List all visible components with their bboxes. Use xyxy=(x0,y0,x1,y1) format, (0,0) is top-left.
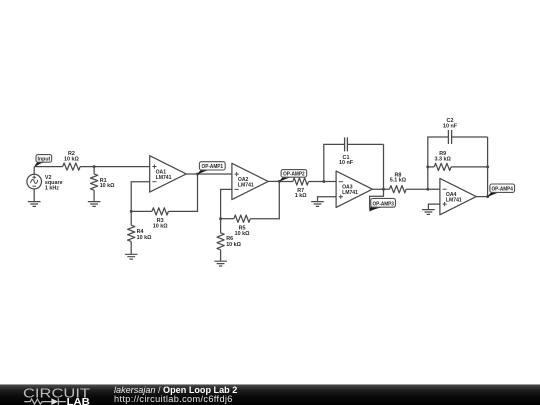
C1 value label xyxy=(339,155,354,166)
wire R3 to feedback node xyxy=(131,210,152,212)
svg-text:Input: Input xyxy=(38,157,51,163)
svg-text:10 kΩ: 10 kΩ xyxy=(235,231,250,237)
net flag Input xyxy=(34,155,52,168)
footer title text xyxy=(114,386,237,405)
resistor R8 xyxy=(390,186,407,193)
node R5/R6 junction xyxy=(219,217,222,220)
node C1 branch junction xyxy=(322,180,325,183)
capacitor C1 xyxy=(345,137,348,151)
wire R8 to OA4 - input xyxy=(406,188,440,190)
svg-text:10 nF: 10 nF xyxy=(339,160,354,166)
wire node to R4 xyxy=(130,211,132,225)
node OA3 output junction xyxy=(382,188,385,191)
svg-text:1 kHz: 1 kHz xyxy=(45,185,59,191)
net flag OP-AMP2 xyxy=(279,170,307,182)
R1 value label xyxy=(100,178,115,189)
OA1 name label xyxy=(156,170,172,182)
resistor R7 xyxy=(293,178,309,185)
R6 value label xyxy=(226,236,241,248)
svg-text:5.1 kΩ: 5.1 kΩ xyxy=(390,178,407,184)
node OA2 output junction xyxy=(278,180,281,183)
CircuitLab logo xyxy=(0,385,100,405)
wire C1 right branch xyxy=(347,144,383,189)
net flag OP-AMP1 xyxy=(197,162,225,175)
wire junction down to R1 xyxy=(93,167,95,174)
wire C2 right branch down to output xyxy=(452,137,488,197)
ground under R4 xyxy=(125,254,138,259)
wire V2 bottom to ground xyxy=(33,189,35,202)
resistor R3 xyxy=(152,208,168,215)
svg-text:10 kΩ: 10 kΩ xyxy=(137,235,152,241)
wire OA2 output xyxy=(268,180,279,182)
wire C1 left branch xyxy=(324,144,345,181)
wire OA1 output xyxy=(186,173,232,175)
svg-text:LM741: LM741 xyxy=(446,198,462,204)
ground at OA4 + input xyxy=(422,210,435,215)
svg-text:OP-AMP3: OP-AMP3 xyxy=(372,202,394,208)
node R2/R1 junction xyxy=(93,165,96,168)
resistor R2 xyxy=(63,163,81,170)
node R9 right junction xyxy=(486,165,489,168)
wire OA4 + input to ground xyxy=(428,204,440,210)
wire corner to R2 xyxy=(34,166,62,168)
svg-text:1 kΩ: 1 kΩ xyxy=(295,193,307,199)
resistor R4 xyxy=(128,225,135,241)
wire OA3 + input to ground xyxy=(318,197,337,202)
op-amp OA2 xyxy=(232,163,268,199)
svg-text:LM741: LM741 xyxy=(342,190,358,196)
svg-text:10 nF: 10 nF xyxy=(443,124,458,130)
R3 value label xyxy=(153,218,168,230)
capacitor C2 xyxy=(448,130,451,144)
wire R6 to ground xyxy=(220,250,222,261)
OA4 name label xyxy=(446,192,462,204)
net flag OP-AMP3 xyxy=(369,198,395,211)
R4 value label xyxy=(137,229,152,241)
node R9 left junction xyxy=(426,165,429,168)
op-amp OA3 xyxy=(336,171,372,207)
resistor R1 xyxy=(91,174,98,190)
R8 value label xyxy=(390,173,407,184)
wire R4 to ground xyxy=(130,242,132,255)
wire OA4 output xyxy=(476,196,487,198)
wire output down to R5 xyxy=(250,181,279,218)
R7 value label xyxy=(295,188,307,199)
op-amp OA4 xyxy=(440,178,476,214)
svg-text:OP-AMP1: OP-AMP1 xyxy=(202,164,224,170)
R9 value label xyxy=(435,151,452,163)
node OA4 output junction xyxy=(486,195,489,198)
wire OA1 - input feedback xyxy=(131,182,150,212)
svg-text:LM741: LM741 xyxy=(156,175,172,181)
footer url text xyxy=(114,395,237,405)
R5 value label xyxy=(235,225,250,237)
voltage source V2 xyxy=(27,174,42,189)
svg-text:10 kΩ: 10 kΩ xyxy=(64,157,79,163)
resistor R9 xyxy=(428,163,488,170)
op-amp OA1 xyxy=(150,156,187,192)
svg-text:OP-AMP4: OP-AMP4 xyxy=(491,186,513,192)
wire R1 to ground xyxy=(93,190,95,201)
wire output down to R3 xyxy=(168,174,197,211)
footer bar xyxy=(0,384,540,405)
node OA1 output junction xyxy=(196,173,199,176)
wire node to R6 xyxy=(220,219,222,233)
wire OA4 left feedback riser xyxy=(428,137,449,189)
resistor R6 xyxy=(217,233,224,250)
svg-text:LAB: LAB xyxy=(67,397,90,405)
svg-text:LM741: LM741 xyxy=(238,183,254,189)
wire input corner to V2 top xyxy=(33,167,35,175)
wire OA2 - input feedback xyxy=(221,189,232,218)
wire R2 to OA1 + input xyxy=(80,166,150,168)
node R3/R4 junction xyxy=(130,210,133,213)
node OA4 feedback junction xyxy=(426,188,429,191)
wire OA2 out to R7 xyxy=(279,181,293,183)
svg-text:3.3 kΩ: 3.3 kΩ xyxy=(435,157,452,163)
wire junction stub to flag xyxy=(370,189,384,209)
svg-text:10 kΩ: 10 kΩ xyxy=(226,242,241,248)
wire OA3 output xyxy=(372,188,389,190)
ground under R1 xyxy=(88,202,101,207)
svg-text:10 kΩ: 10 kΩ xyxy=(100,183,115,189)
ground at OA3 + input xyxy=(311,202,324,207)
resistor R5 xyxy=(234,215,250,222)
OA3 name label xyxy=(342,185,358,197)
ground under V2 xyxy=(28,202,41,207)
R2 value label xyxy=(64,151,79,162)
svg-text:10 kΩ: 10 kΩ xyxy=(153,224,168,230)
svg-text:OP-AMP2: OP-AMP2 xyxy=(283,172,305,178)
OA2 name label xyxy=(238,177,254,189)
ground under R6 xyxy=(214,261,227,266)
wire R5 to feedback node xyxy=(221,218,234,220)
wire R7 to OA3 - input xyxy=(309,181,337,183)
C2 value label xyxy=(443,118,458,130)
V2 value label xyxy=(45,175,63,191)
net flag OP-AMP4 xyxy=(487,184,514,197)
